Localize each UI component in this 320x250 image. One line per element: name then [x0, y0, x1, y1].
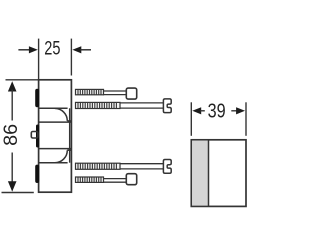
svg-text:39: 39	[208, 100, 226, 123]
svg-text:25: 25	[44, 38, 60, 59]
svg-text:86: 86	[1, 124, 22, 146]
